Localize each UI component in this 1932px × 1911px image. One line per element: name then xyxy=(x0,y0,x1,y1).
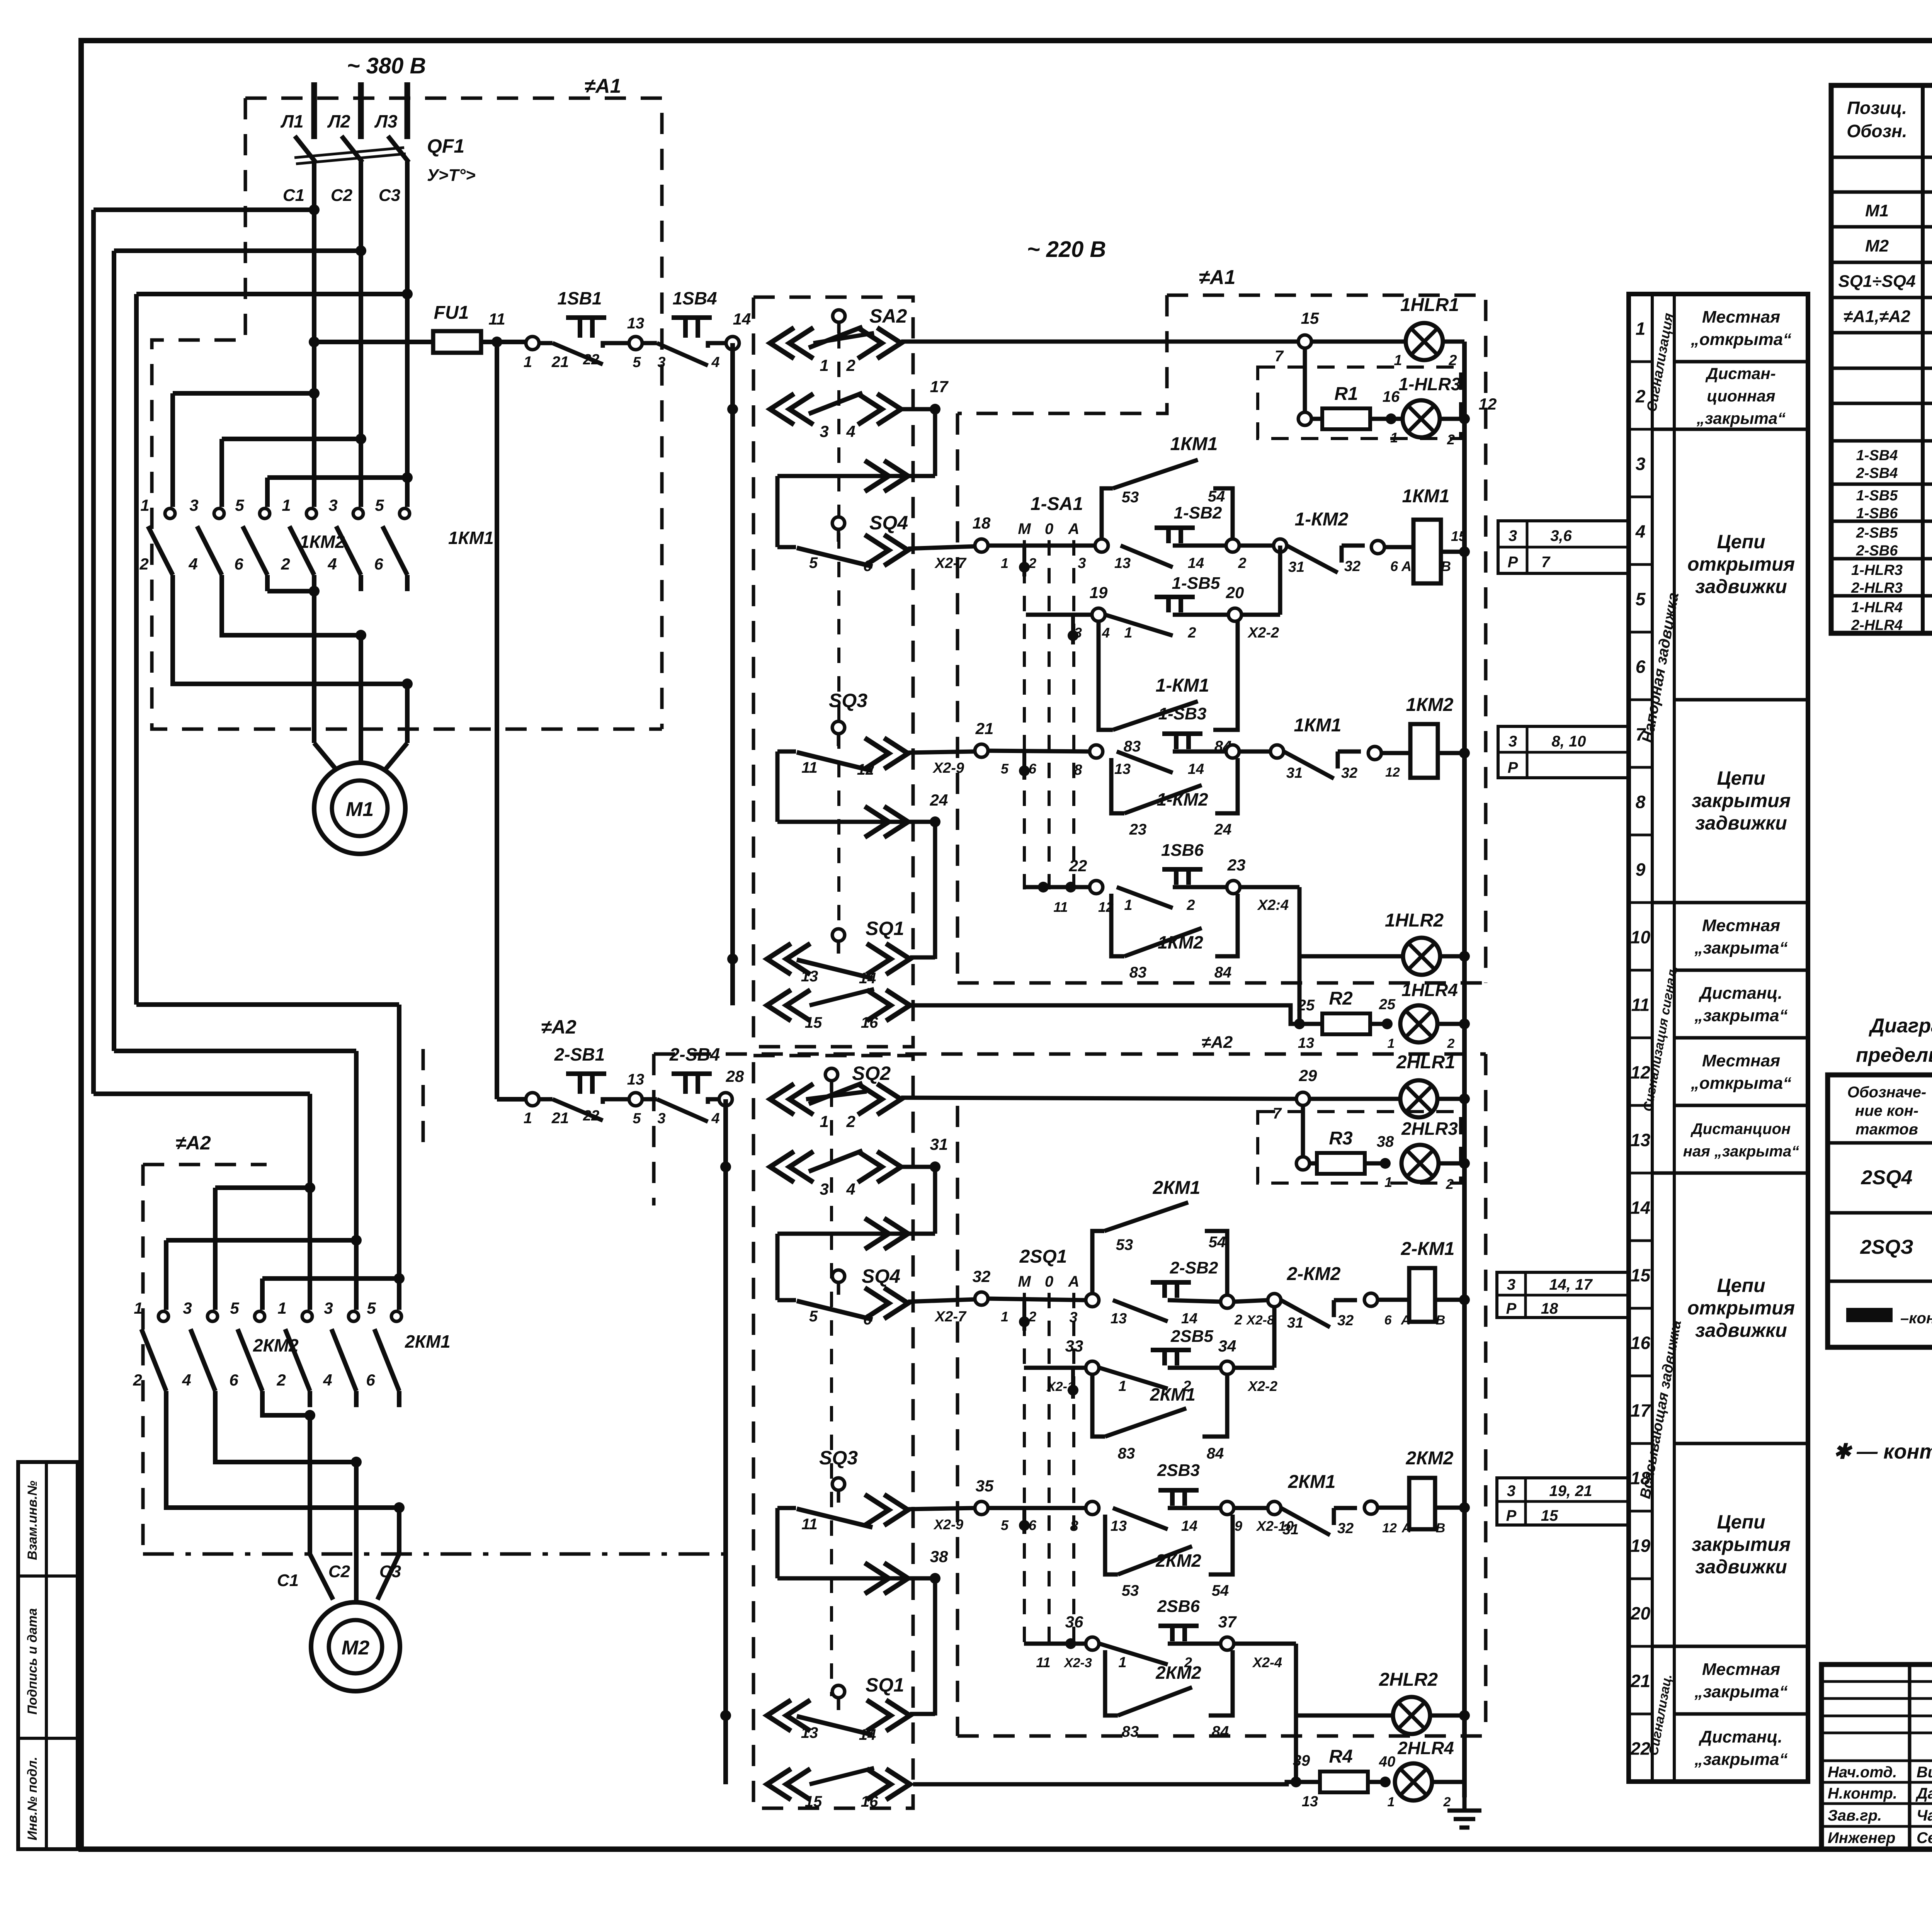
svg-text:11: 11 xyxy=(1631,995,1650,1015)
svg-text:28: 28 xyxy=(726,1067,744,1085)
aux contact 2KM2 53-54 xyxy=(1105,1515,1118,1574)
cross-reference box rung 4 xyxy=(1498,521,1628,573)
svg-text:✱ — контакт не используетс: ✱ — контакт не используется xyxy=(1833,1440,1932,1463)
svg-text:6: 6 xyxy=(1029,1517,1037,1533)
svg-text:2: 2 xyxy=(139,555,148,573)
motor M1 xyxy=(314,743,339,773)
svg-text:7: 7 xyxy=(1275,348,1284,365)
svg-text:3: 3 xyxy=(1069,1309,1077,1326)
svg-text:15: 15 xyxy=(805,1014,822,1031)
svg-text:19: 19 xyxy=(1090,583,1108,602)
svg-text:7: 7 xyxy=(1541,554,1551,571)
svg-text:предельного момента SQЗ, SQ4: предельного момента SQЗ, SQ4 xyxy=(1856,1044,1932,1066)
svg-text:С1: С1 xyxy=(277,1571,299,1590)
svg-text:2-SВ4: 2-SВ4 xyxy=(1856,465,1898,481)
node 20 xyxy=(1228,608,1242,621)
svg-text:15: 15 xyxy=(1541,1507,1558,1524)
svg-text:5: 5 xyxy=(230,1299,239,1317)
wire phase C2 vertical xyxy=(359,162,363,507)
svg-text:13: 13 xyxy=(1114,555,1131,571)
svg-text:8, 10: 8, 10 xyxy=(1552,733,1586,750)
svg-text:14: 14 xyxy=(733,310,751,328)
aux contact 1KM2 83-84 xyxy=(1111,894,1124,956)
cross-reference box rung 7 xyxy=(1498,726,1628,778)
svg-text:3: 3 xyxy=(1509,733,1517,750)
svg-text:Цепи: Цепи xyxy=(1717,1275,1765,1296)
svg-text:22: 22 xyxy=(1069,857,1087,875)
svg-text:4: 4 xyxy=(711,354,719,371)
svg-text:1-КМ2: 1-КМ2 xyxy=(1156,789,1208,809)
contactor coil 1KM1 xyxy=(1413,520,1441,583)
left frame stamp cells xyxy=(18,1462,78,1849)
svg-text:9: 9 xyxy=(1636,860,1646,880)
svg-text:18: 18 xyxy=(973,514,991,532)
node 38 xyxy=(1380,1158,1391,1169)
svg-text:1: 1 xyxy=(140,496,149,514)
svg-text:1-КМ1: 1-КМ1 xyxy=(1156,675,1209,696)
limit switch SQ3 xyxy=(832,721,845,734)
svg-text:22: 22 xyxy=(583,1108,599,1124)
limit switch SQ4 xyxy=(832,517,845,529)
svg-text:1-НLR4: 1-НLR4 xyxy=(1851,600,1903,616)
svg-text:3: 3 xyxy=(1509,527,1517,544)
svg-text:6: 6 xyxy=(234,555,243,573)
svg-text:ние кон-: ние кон- xyxy=(1855,1102,1918,1119)
svg-text:2: 2 xyxy=(276,1371,286,1389)
svg-text:закрытия: закрытия xyxy=(1692,1534,1791,1555)
svg-text:23: 23 xyxy=(1129,821,1147,838)
svg-text:R3: R3 xyxy=(1329,1128,1353,1149)
svg-text:2КМ2: 2КМ2 xyxy=(1155,1551,1201,1571)
svg-text:–контакт замкнут: –контакт замкнут xyxy=(1900,1310,1932,1327)
node junction rung4 xyxy=(1274,539,1287,552)
svg-text:задвижки: задвижки xyxy=(1695,812,1787,834)
svg-text:Дистанц.: Дистанц. xyxy=(1698,984,1782,1003)
svg-text:2: 2 xyxy=(1238,555,1246,571)
circuit breaker QF1 xyxy=(295,136,316,162)
svg-text:6: 6 xyxy=(229,1371,238,1389)
svg-text:83: 83 xyxy=(1129,964,1147,981)
push-button 1-SB2 xyxy=(1155,528,1195,543)
svg-text:39: 39 xyxy=(1293,1752,1310,1769)
svg-text:„закрыта“: „закрыта“ xyxy=(1696,409,1786,427)
contact SQ2 3-4 xyxy=(770,1151,813,1182)
svg-text:1SВ1: 1SВ1 xyxy=(557,288,602,308)
selector SA2 box dashed xyxy=(753,297,913,1047)
svg-text:1: 1 xyxy=(1388,1795,1395,1809)
svg-text:Дистанцион: Дистанцион xyxy=(1690,1120,1791,1137)
limit switch SQ1 circuit2 xyxy=(720,1710,731,1721)
svg-text:20: 20 xyxy=(1630,1603,1651,1624)
svg-text:13: 13 xyxy=(1111,1518,1127,1534)
svg-text:М: М xyxy=(1018,520,1031,537)
svg-text:С2: С2 xyxy=(331,186,353,205)
svg-text:32: 32 xyxy=(1344,558,1361,575)
svg-text:Нач.отд.: Нач.отд. xyxy=(1828,1764,1897,1781)
node 12 xyxy=(1459,413,1470,424)
svg-text:А: А xyxy=(1068,1273,1080,1290)
svg-text:54: 54 xyxy=(1208,488,1225,505)
svg-text:16: 16 xyxy=(1383,388,1400,405)
svg-text:6: 6 xyxy=(366,1371,375,1389)
contactor contacts 2KM2 and 2KM1 xyxy=(158,1311,168,1321)
svg-text:Местная: Местная xyxy=(1702,916,1780,935)
svg-text:1: 1 xyxy=(1388,1036,1395,1051)
rung 11: R2 and 1HLR4 xyxy=(913,1005,1299,1024)
aux contact 1-KM2 23-24 xyxy=(1111,758,1124,813)
svg-text:1-SВ4: 1-SВ4 xyxy=(1856,447,1898,464)
svg-text:53: 53 xyxy=(1116,1236,1133,1253)
svg-text:24: 24 xyxy=(930,791,948,809)
svg-text:22: 22 xyxy=(583,352,599,368)
svg-text:Дистан-: Дистан- xyxy=(1705,364,1776,383)
svg-text:„закрыта“: „закрыта“ xyxy=(1694,938,1787,957)
svg-text:8: 8 xyxy=(1074,762,1082,778)
svg-text:13: 13 xyxy=(627,1071,645,1088)
svg-text:Р: Р xyxy=(1506,1300,1517,1317)
svg-text:М1: М1 xyxy=(1865,201,1889,220)
node 15 to node 7 stub xyxy=(1303,348,1307,419)
svg-text:83: 83 xyxy=(1122,1723,1139,1740)
svg-text:36: 36 xyxy=(1065,1613,1083,1631)
svg-text:Л3: Л3 xyxy=(374,111,398,131)
svg-text:8: 8 xyxy=(1636,792,1646,812)
svg-text:1: 1 xyxy=(282,496,291,514)
node 32 xyxy=(975,1292,988,1305)
svg-text:1-НLR3: 1-НLR3 xyxy=(1851,562,1903,578)
svg-text:R4: R4 xyxy=(1329,1746,1352,1767)
dashed box SQ2 column xyxy=(753,1056,913,1808)
svg-text:Инженер: Инженер xyxy=(1828,1829,1895,1846)
svg-text:54: 54 xyxy=(1212,1582,1229,1599)
svg-text:19, 21: 19, 21 xyxy=(1549,1483,1592,1500)
svg-text:11: 11 xyxy=(1036,1654,1050,1670)
ground at rail bottom xyxy=(1447,1797,1481,1828)
svg-text:24: 24 xyxy=(1214,821,1232,838)
svg-text:В: В xyxy=(1441,558,1451,574)
svg-text:Л1: Л1 xyxy=(280,111,303,131)
node 29 stub down xyxy=(1301,1105,1305,1163)
svg-text:3: 3 xyxy=(657,354,665,371)
svg-text:2: 2 xyxy=(846,356,855,374)
wire tap C1 to 1KM2 xyxy=(173,391,314,396)
svg-text:открытия: открытия xyxy=(1687,553,1795,575)
svg-text:13: 13 xyxy=(1298,1035,1314,1051)
svg-text:1: 1 xyxy=(1394,352,1402,369)
svg-text:2SQ1: 2SQ1 xyxy=(1019,1246,1067,1267)
svg-text:1: 1 xyxy=(1636,319,1646,339)
svg-text:1-SВ6: 1-SВ6 xyxy=(1856,505,1898,522)
svg-text:17: 17 xyxy=(930,377,949,396)
svg-text:17: 17 xyxy=(1631,1401,1651,1421)
svg-text:Цепи: Цепи xyxy=(1717,767,1765,789)
limit switch SQ1 xyxy=(727,954,738,964)
svg-text:Х2-7: Х2-7 xyxy=(934,555,967,571)
svg-text:14: 14 xyxy=(1181,1311,1197,1327)
svg-text:1КМ1: 1КМ1 xyxy=(1294,715,1342,736)
svg-text:2КМ2: 2КМ2 xyxy=(1155,1663,1201,1683)
svg-text:2: 2 xyxy=(1447,1036,1455,1051)
svg-text:2SВ3: 2SВ3 xyxy=(1157,1461,1200,1480)
svg-text:83: 83 xyxy=(1118,1445,1135,1462)
node 8 xyxy=(1090,745,1103,758)
svg-text:С2: С2 xyxy=(328,1562,350,1581)
svg-text:35: 35 xyxy=(976,1477,994,1495)
svg-text:1: 1 xyxy=(1118,1654,1126,1671)
svg-text:5: 5 xyxy=(375,496,384,514)
svg-text:29: 29 xyxy=(1299,1066,1317,1085)
dashed control box A2 xyxy=(654,1052,1486,1056)
svg-text:С3: С3 xyxy=(379,186,400,205)
svg-text:3: 3 xyxy=(657,1110,665,1127)
node 3 xyxy=(1095,539,1108,552)
svg-text:84: 84 xyxy=(1214,964,1232,981)
svg-text:1: 1 xyxy=(1124,625,1132,641)
svg-text:тактов: тактов xyxy=(1855,1121,1918,1138)
rung 20: button 2SB6 xyxy=(1086,1637,1099,1650)
svg-text:13: 13 xyxy=(801,968,818,985)
svg-text:7: 7 xyxy=(1273,1105,1282,1122)
svg-text:12: 12 xyxy=(1382,1521,1397,1535)
svg-text:83: 83 xyxy=(1124,738,1141,755)
signal lamp 1HLR2 rung xyxy=(1299,954,1403,959)
limit switch SQ1 circuit 2 xyxy=(832,1685,845,1698)
limit switch SQ3 bracket to node 24 xyxy=(776,751,780,822)
svg-text:Р: Р xyxy=(1506,1507,1517,1524)
node 18 xyxy=(975,539,988,552)
svg-text:3: 3 xyxy=(1078,555,1086,571)
svg-text:С1: С1 xyxy=(283,186,304,205)
svg-text:2: 2 xyxy=(1234,1312,1242,1328)
svg-text:6: 6 xyxy=(1636,657,1646,677)
wire 17 bracket down xyxy=(933,409,937,476)
svg-text:1-SВ3: 1-SВ3 xyxy=(1158,704,1207,723)
svg-text:1-НLR3: 1-НLR3 xyxy=(1398,374,1461,394)
svg-text:5: 5 xyxy=(809,1308,818,1325)
svg-text:≠А1: ≠А1 xyxy=(584,75,621,97)
svg-text:А: А xyxy=(1068,520,1080,537)
svg-text:6: 6 xyxy=(1390,558,1398,574)
svg-text:„закрыта“: „закрыта“ xyxy=(1694,1682,1787,1701)
svg-text:15: 15 xyxy=(805,1793,822,1810)
svg-text:Н.контр.: Н.контр. xyxy=(1828,1785,1897,1802)
svg-text:14: 14 xyxy=(1188,555,1204,571)
svg-text:2КМ2: 2КМ2 xyxy=(1406,1448,1454,1469)
svg-text:Х2-8: Х2-8 xyxy=(1246,1313,1274,1328)
svg-text:4: 4 xyxy=(846,1180,855,1198)
svg-text:13: 13 xyxy=(1631,1130,1651,1150)
node 21 xyxy=(975,744,988,757)
svg-text:Диаграмма работы муфты: Диаграмма работы муфты xyxy=(1869,1015,1932,1037)
svg-text:25: 25 xyxy=(1297,997,1315,1014)
svg-text:16: 16 xyxy=(861,1014,878,1031)
svg-text:QF1: QF1 xyxy=(427,135,464,157)
title block xyxy=(1821,1664,1932,1849)
svg-text:Х2-7: Х2-7 xyxy=(934,1309,967,1325)
svg-text:задвижки: задвижки xyxy=(1695,1319,1787,1341)
fuse FU1 xyxy=(433,331,481,353)
svg-text:2КМ2: 2КМ2 xyxy=(253,1335,299,1355)
svg-text:11: 11 xyxy=(801,1516,818,1533)
svg-text:2-НLR3: 2-НLR3 xyxy=(1851,580,1903,596)
svg-text:Зав.гр.: Зав.гр. xyxy=(1828,1807,1882,1824)
svg-text:4: 4 xyxy=(1102,625,1110,641)
svg-text:≠А2: ≠А2 xyxy=(175,1132,211,1154)
svg-text:открытия: открытия xyxy=(1687,1297,1795,1319)
svg-text:≠А2: ≠А2 xyxy=(1202,1033,1233,1052)
svg-text:Местная: Местная xyxy=(1702,308,1780,326)
svg-text:14: 14 xyxy=(1188,761,1204,777)
svg-text:SQ4: SQ4 xyxy=(862,1265,900,1287)
svg-text:4: 4 xyxy=(182,1371,191,1389)
svg-text:SА2: SА2 xyxy=(869,305,907,327)
svg-text:3: 3 xyxy=(189,496,198,514)
wire tap C2 to M2 feeder xyxy=(114,248,361,253)
svg-text:2НLR2: 2НLR2 xyxy=(1379,1670,1438,1690)
svg-text:Местная: Местная xyxy=(1702,1051,1780,1070)
svg-text:5: 5 xyxy=(633,354,641,371)
svg-text:4: 4 xyxy=(323,1371,332,1389)
svg-text:25: 25 xyxy=(1379,996,1396,1013)
svg-text:Позиц.: Позиц. xyxy=(1847,98,1907,118)
svg-text:Подпись и дата: Подпись и дата xyxy=(25,1608,40,1715)
signal lamp 1HLR1 xyxy=(1311,340,1406,344)
svg-text:В: В xyxy=(1436,1521,1446,1535)
svg-text:„открыта“: „открыта“ xyxy=(1690,330,1791,349)
rung 5: button 1-SB5 xyxy=(1092,608,1105,621)
svg-text:1НLR2: 1НLR2 xyxy=(1385,910,1444,931)
svg-text:5: 5 xyxy=(235,496,244,514)
left rail circuit 1 xyxy=(730,343,735,1005)
svg-text:Цепи: Цепи xyxy=(1717,1511,1765,1533)
svg-text:33: 33 xyxy=(1065,1337,1083,1355)
svg-text:2: 2 xyxy=(1443,1795,1451,1809)
svg-text:34: 34 xyxy=(1218,1337,1236,1355)
svg-text:0: 0 xyxy=(1045,1273,1053,1290)
svg-text:15: 15 xyxy=(1451,528,1467,544)
svg-text:R1: R1 xyxy=(1334,384,1358,404)
svg-text:3: 3 xyxy=(820,1180,828,1198)
svg-text:5: 5 xyxy=(1636,589,1646,609)
svg-text:3: 3 xyxy=(183,1299,192,1317)
svg-text:5: 5 xyxy=(367,1299,376,1317)
svg-text:31: 31 xyxy=(1288,559,1304,575)
svg-text:1-SВ2: 1-SВ2 xyxy=(1174,503,1222,522)
svg-text:2: 2 xyxy=(1446,1176,1454,1192)
cross-reference box rung 15 xyxy=(1497,1272,1628,1318)
svg-text:4: 4 xyxy=(1635,522,1646,542)
svg-text:0: 0 xyxy=(1045,520,1053,537)
svg-text:Обозначе-: Обозначе- xyxy=(1847,1084,1927,1101)
svg-text:13: 13 xyxy=(1114,761,1131,777)
node 23 xyxy=(1227,881,1240,894)
svg-text:Давлианидзе: Давлианидзе xyxy=(1915,1785,1932,1802)
svg-text:15: 15 xyxy=(1631,1265,1651,1285)
svg-text:16: 16 xyxy=(1631,1333,1651,1353)
svg-text:2SQЗ: 2SQЗ xyxy=(1860,1236,1913,1258)
contact SQ2 1-2 xyxy=(770,1084,813,1115)
output bridges M1 xyxy=(267,589,314,593)
svg-text:задвижки: задвижки xyxy=(1695,576,1787,597)
svg-text:2: 2 xyxy=(846,1112,855,1131)
signal lamp 2HLR1 xyxy=(1310,1097,1400,1101)
svg-text:1: 1 xyxy=(1001,1309,1009,1324)
wire phase C1 vertical xyxy=(312,162,316,507)
node 15 xyxy=(1298,335,1311,348)
svg-text:ционная: ционная xyxy=(1707,387,1775,405)
dashed box around R1/1-HLR3 lamp assembly xyxy=(1258,367,1461,439)
svg-text:6: 6 xyxy=(863,1311,872,1328)
svg-text:1КМ2: 1КМ2 xyxy=(1406,695,1454,715)
svg-text:38: 38 xyxy=(930,1547,948,1566)
svg-text:2SQ4: 2SQ4 xyxy=(1861,1166,1913,1189)
svg-text:SQ3: SQ3 xyxy=(829,690,867,711)
svg-text:2-SВ6: 2-SВ6 xyxy=(1856,543,1898,559)
svg-text:1SВ4: 1SВ4 xyxy=(672,288,717,308)
svg-text:12: 12 xyxy=(1479,395,1497,413)
svg-text:32: 32 xyxy=(1341,765,1357,781)
svg-text:Х2:4: Х2:4 xyxy=(1257,897,1289,913)
svg-text:13: 13 xyxy=(627,315,645,332)
svg-text:4: 4 xyxy=(188,555,197,573)
left rail circuit 2 xyxy=(723,1099,728,1784)
svg-text:2-SВ2: 2-SВ2 xyxy=(1170,1258,1218,1277)
M2 feeder bridges xyxy=(215,1185,310,1190)
svg-text:9: 9 xyxy=(1235,1518,1242,1534)
svg-text:≠А1: ≠А1 xyxy=(1199,266,1235,289)
svg-text:Чаруева: Чаруева xyxy=(1917,1807,1932,1824)
SQ1 contact 15-16 xyxy=(767,990,810,1021)
svg-text:11: 11 xyxy=(801,759,818,776)
svg-text:5: 5 xyxy=(633,1110,641,1127)
svg-text:13: 13 xyxy=(1302,1794,1318,1810)
svg-text:1: 1 xyxy=(1390,430,1398,445)
svg-text:2-НLR4: 2-НLR4 xyxy=(1851,617,1903,634)
return rail (right) xyxy=(1462,342,1467,1797)
svg-text:31: 31 xyxy=(1286,765,1303,781)
svg-text:10: 10 xyxy=(1631,927,1651,947)
svg-text:21: 21 xyxy=(975,719,994,738)
self hold contact 1KM1 53-54 xyxy=(1102,488,1113,539)
svg-text:М: М xyxy=(1018,1273,1031,1290)
svg-text:54: 54 xyxy=(1209,1234,1226,1251)
dash-dot bottom of A2 power box xyxy=(143,1552,734,1556)
svg-text:SQ1÷SQ4: SQ1÷SQ4 xyxy=(1838,272,1915,291)
svg-text:32: 32 xyxy=(1337,1313,1354,1329)
limit switch SQ2 contact 1-2 xyxy=(825,1068,838,1081)
svg-text:31: 31 xyxy=(930,1135,948,1153)
svg-text:5: 5 xyxy=(809,554,818,571)
svg-text:21: 21 xyxy=(551,354,569,371)
svg-text:ная „закрыта“: ная „закрыта“ xyxy=(1683,1143,1799,1160)
svg-text:Вишневский: Вишневский xyxy=(1917,1764,1932,1781)
svg-text:М2: М2 xyxy=(1865,236,1889,255)
limit switch SQ3 circuit 2 xyxy=(832,1478,845,1490)
node 3 circuit2 xyxy=(1086,1294,1099,1307)
svg-text:12: 12 xyxy=(1385,765,1400,780)
svg-text:14, 17: 14, 17 xyxy=(1549,1276,1593,1293)
rung 4 wire xyxy=(988,544,1095,548)
svg-text:5: 5 xyxy=(1001,761,1009,777)
svg-text:2КМ1: 2КМ1 xyxy=(405,1331,451,1352)
svg-text:8: 8 xyxy=(1070,1518,1078,1534)
wire control feed 220V xyxy=(314,340,433,344)
svg-text:~ 380 В: ~ 380 В xyxy=(347,53,426,78)
node 2 xyxy=(1226,539,1239,552)
M2 feeder horizontals xyxy=(136,1002,399,1007)
wire SQ2 to node 29 xyxy=(901,1098,1296,1099)
wire tap C3 to M2 feeder xyxy=(136,292,407,296)
